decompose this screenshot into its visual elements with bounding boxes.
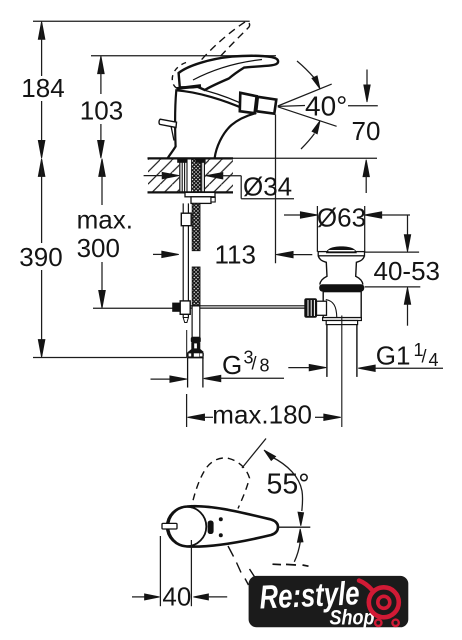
counter bottom edge	[148, 191, 234, 193]
reference line 390 bottom	[33, 357, 187, 359]
shank side tab	[211, 197, 215, 202]
svg-text:Shop: Shop	[330, 607, 375, 630]
hose end connector dark	[188, 337, 204, 352]
svg-text:8: 8	[260, 356, 270, 376]
svg-text:Ø63: Ø63	[317, 203, 366, 233]
counter hatch left	[148, 159, 179, 192]
svg-text:184: 184	[21, 73, 64, 103]
handle top view	[168, 506, 278, 546]
G3/8 nut	[187, 330, 204, 358]
svg-text:70: 70	[352, 116, 381, 146]
drain neck	[318, 256, 364, 285]
cartridge seam	[177, 86, 202, 89]
stray dashes right of lower handle	[273, 564, 309, 566]
cart @ symbol	[359, 581, 399, 627]
svg-text:300: 300	[77, 233, 120, 263]
dimension 103	[80, 56, 123, 158]
label diameter 34	[144, 172, 294, 202]
counter top thin extension	[233, 157, 377, 159]
svg-text:G: G	[222, 350, 242, 380]
drain body bulge	[326, 300, 337, 318]
55 degree leg line	[242, 439, 266, 469]
svg-text:40-53: 40-53	[374, 256, 441, 286]
lever handle	[179, 56, 279, 90]
handle pin stub	[162, 523, 177, 529]
dimension 40 bottom	[132, 536, 227, 612]
reference line max300 bottom / rod line	[93, 307, 190, 309]
dashed swung handle upper	[191, 458, 250, 512]
drain plug cap	[326, 246, 357, 253]
horizontal pop-up rod	[190, 306, 305, 308]
dashed lever rear cap	[172, 63, 186, 90]
shank nut below counter	[185, 192, 215, 196]
mounting tabs	[177, 159, 187, 163]
rod slider	[181, 213, 191, 226]
drain tailpipe	[327, 325, 357, 377]
dimension 184	[21, 22, 64, 159]
supply hose lower	[192, 267, 200, 306]
top reference line 184	[33, 20, 250, 22]
handle logo pill	[208, 521, 214, 535]
dimension 40-53	[363, 215, 440, 325]
drain flange	[318, 252, 364, 256]
reference line 103	[91, 55, 276, 57]
svg-text:/: /	[422, 347, 427, 367]
lever inner line	[193, 60, 262, 81]
actuator knob	[304, 298, 317, 317]
svg-text:113: 113	[215, 240, 256, 270]
svg-text:G1: G1	[376, 341, 411, 371]
svg-text:390: 390	[19, 242, 62, 272]
handle axis extension line	[278, 526, 310, 528]
hose end tube	[192, 306, 200, 337]
shank hose braid in counter	[192, 159, 201, 192]
actuator stem	[317, 301, 327, 315]
svg-text:max.: max.	[77, 205, 133, 235]
G3/8 tube	[188, 358, 203, 388]
svg-text:Ø34: Ø34	[243, 172, 292, 202]
dimension diameter 63	[284, 203, 410, 252]
label G1 1/4	[288, 340, 443, 371]
40 degree lower arc	[301, 121, 320, 149]
dimension 70	[352, 70, 381, 194]
svg-text:max.180: max.180	[212, 400, 312, 430]
counter hatch right	[205, 159, 233, 192]
shank step fitting	[191, 197, 211, 204]
dimension max.300	[77, 159, 133, 309]
faucet shank tube lines	[180, 158, 205, 192]
dimension 113	[153, 240, 312, 270]
40deg tick line	[348, 105, 378, 107]
svg-text:/: /	[252, 354, 257, 374]
spout projection line	[275, 115, 277, 264]
supply hose upper	[192, 203, 200, 250]
dimension max.180	[187, 394, 341, 430]
spout aerator box	[256, 97, 276, 114]
faucet body	[168, 90, 255, 158]
handle dots	[219, 517, 223, 521]
svg-text:4: 4	[429, 350, 439, 370]
handle cap circle	[167, 507, 207, 547]
svg-text:103: 103	[80, 96, 123, 126]
drain body	[323, 292, 361, 318]
spout box inner	[240, 93, 257, 113]
dimension 390	[19, 159, 62, 358]
55 degree arc lower with arrow	[294, 529, 303, 562]
pop-up knob rear	[159, 119, 176, 140]
restyle shop logo	[249, 574, 409, 629]
svg-text:40°: 40°	[305, 91, 347, 122]
drain center line	[341, 316, 343, 428]
40 degree upper arc	[297, 61, 320, 89]
drain seal ring	[319, 284, 364, 291]
body accent curve	[206, 91, 248, 107]
label G 3/8	[151, 348, 285, 383]
drain bottom flange	[323, 318, 362, 325]
40 degree spray lines	[278, 84, 337, 126]
svg-text:55°: 55°	[267, 469, 310, 501]
pop-up rod vertical	[183, 203, 188, 322]
counter top edge	[148, 157, 234, 159]
dashed raised lever	[186, 21, 250, 85]
55 degree arc upper with arrows	[264, 450, 304, 526]
svg-text:40: 40	[162, 582, 191, 612]
dashed swung handle lower	[228, 546, 262, 586]
rod connector block	[172, 301, 190, 314]
